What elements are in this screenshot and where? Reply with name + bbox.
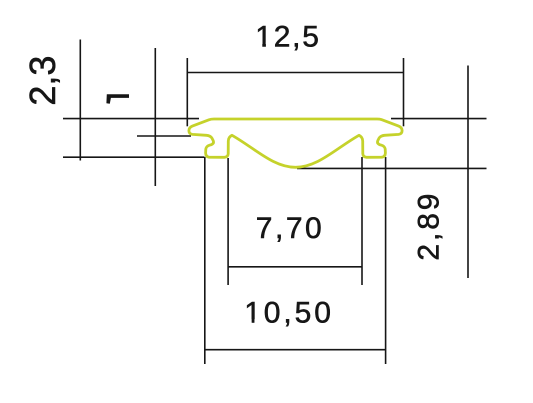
extension line 10,50 left bbox=[204, 157, 206, 364]
dimension line 1 (vertical) bbox=[154, 48, 156, 186]
svg-text:12,5: 12,5 bbox=[255, 20, 321, 53]
svg-text:10,50: 10,50 bbox=[244, 297, 334, 330]
dimension line 12,5 (horizontal) bbox=[187, 72, 403, 74]
dimension line 10,50 (horizontal) bbox=[205, 349, 386, 351]
digit 1 stem restore bbox=[252, 42, 265, 322]
dimension label 1 (rotated) bbox=[106, 94, 129, 104]
extension line 2,89 bottom bbox=[297, 167, 487, 169]
dimension line 2,89 (vertical) bbox=[467, 66, 469, 279]
serif patches on digit 1 glyphs bbox=[246, 42, 273, 324]
dimension line 7,70 (horizontal) bbox=[228, 266, 362, 268]
svg-text:2,3: 2,3 bbox=[22, 56, 63, 106]
dimension line 2,3 (vertical) bbox=[79, 40, 81, 161]
svg-text:2,89: 2,89 bbox=[413, 191, 446, 261]
extension line top surface left bbox=[63, 118, 199, 120]
extension line 12,5 right bbox=[403, 58, 405, 126]
profile outline (LED cover cross-section) bbox=[189, 119, 402, 167]
extension line top surface right bbox=[391, 118, 487, 120]
extension line 2,3 bottom bbox=[63, 156, 205, 158]
extension line 7,70 right bbox=[361, 157, 363, 285]
extension line 7,70 left bbox=[227, 158, 229, 285]
extension line 1 bottom bbox=[137, 135, 191, 137]
extension line 10,50 right bbox=[385, 157, 387, 364]
svg-text:7,70: 7,70 bbox=[256, 212, 324, 245]
extension line 12,5 left bbox=[186, 58, 188, 126]
